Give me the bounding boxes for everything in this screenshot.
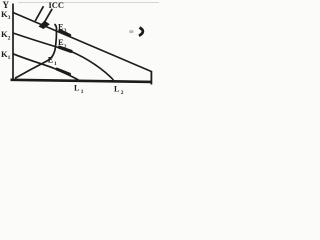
stray mark ) [139,28,143,36]
svg-text:L: L [74,83,80,92]
svg-text:1: 1 [81,89,84,95]
svg-text:2: 2 [8,35,11,41]
svg-text:2: 2 [64,44,67,50]
svg-text:1: 1 [8,55,11,61]
svg-text:1: 1 [54,61,57,67]
background [0,0,159,95]
budget line 2 (K2-L2) [13,33,114,80]
arrow head [39,21,50,29]
svg-text:2: 2 [121,90,124,95]
Y axis [12,4,14,82]
ICC expansion curve [15,24,57,78]
svg-text:3: 3 [8,15,11,21]
tangency wedge E3 [60,31,70,36]
tangency wedge E2 [60,47,72,51]
svg-text:3: 3 [64,28,67,34]
budget line 3 (K3-L3) [13,13,151,72]
svg-text:ICC: ICC [49,1,65,10]
arrow shaft A [35,6,43,21]
svg-text:E: E [48,55,54,64]
stray smudge [129,30,133,33]
arrow shaft B [43,9,52,25]
budget line 1 (K1-L1) [13,54,79,80]
X axis [11,80,153,82]
svg-text:L: L [114,84,120,93]
faint top rule [18,2,159,4]
tangency wedge E1 [57,69,70,74]
axis end bar [150,71,152,85]
